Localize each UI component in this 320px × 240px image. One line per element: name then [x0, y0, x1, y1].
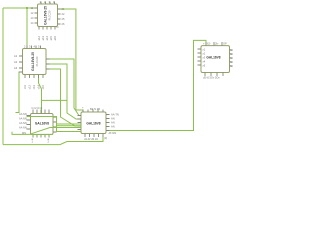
- U1 pin labels: [31, 0, 65, 40]
- svg-text:62-: 62-: [207, 41, 211, 45]
- wire left rail from U1 pin to bottom: [3, 8, 38, 145]
- svg-text:c13: c13: [32, 84, 36, 89]
- svg-text:GAL16V8: GAL16V8: [35, 122, 49, 126]
- svg-text:a16: a16: [53, 35, 57, 40]
- svg-text:AA-TN: AA-TN: [111, 113, 119, 117]
- svg-text:AN: AN: [111, 121, 115, 125]
- U4 pin labels: [82, 107, 119, 142]
- svg-text:c15: c15: [41, 84, 45, 89]
- svg-text:AN: AN: [111, 125, 115, 129]
- U2 pin labels: [14, 45, 45, 90]
- svg-text:t1 t2 t3 t4: t1 t2 t3 t4: [32, 106, 43, 110]
- svg-text:d5 t6 5Ox 5Ox: d5 t6 5Ox 5Ox: [203, 76, 220, 80]
- junction dot U2 top pin 3: [35, 49, 37, 51]
- svg-text:AN: AN: [111, 117, 115, 121]
- wire U2 left pin down to U3: [16, 72, 23, 113]
- svg-text:a14: a14: [45, 35, 49, 40]
- wire U2 bottom diagonal to U3: [39, 75, 42, 114]
- svg-text:4x: 4x: [230, 64, 233, 68]
- svg-text:AA NN: AA NN: [19, 112, 27, 116]
- wire U1 right loop down to U4 top pin: [58, 9, 84, 112]
- svg-text:GAL16V8-25: GAL16V8-25: [31, 52, 35, 71]
- svg-text:(2): (2): [104, 136, 107, 140]
- wire bottom rail: [3, 137, 103, 145]
- IC U1: [35, 2, 61, 30]
- svg-text:AA NN: AA NN: [19, 126, 27, 130]
- IC U5: [198, 42, 233, 76]
- wire U2 right pin3: [46, 69, 81, 126]
- svg-text:GAL16V8: GAL16V8: [86, 122, 100, 126]
- wire U1 to U2 vertical: [26, 8, 28, 49]
- svg-text:AA NN: AA NN: [19, 121, 27, 125]
- svg-text:d1 d2 d3 d4: d1 d2 d3 d4: [84, 137, 98, 141]
- svg-text:PLCC20: PLCC20: [35, 56, 39, 66]
- svg-text:GAL16V8-25: GAL16V8-25: [44, 6, 48, 25]
- wire diagonal through U3: [31, 128, 81, 134]
- svg-text:a13: a13: [41, 35, 45, 40]
- wire through U3 horizontal: [27, 117, 82, 132]
- IC U2: [19, 46, 50, 79]
- svg-text:4x: 4x: [230, 56, 233, 60]
- junction dot A: [26, 7, 28, 9]
- IC U4: [78, 110, 110, 138]
- svg-text:A2: A2: [14, 60, 18, 64]
- svg-text:PLCC20: PLCC20: [48, 10, 52, 20]
- wire U2 right pin1: [46, 59, 81, 116]
- svg-text:4x: 4x: [230, 48, 233, 52]
- svg-text:4x: 4x: [230, 60, 233, 64]
- svg-text:c11: c11: [23, 84, 27, 89]
- svg-text:c14: c14: [37, 84, 41, 89]
- junction dot U2 top pin 4: [40, 49, 42, 51]
- wire bottom segment left of U3: [12, 132, 53, 135]
- svg-text:BE N 2B: BE N 2B: [90, 107, 100, 111]
- svg-text:GAL16V8: GAL16V8: [206, 56, 220, 60]
- svg-text:A1: A1: [14, 54, 18, 58]
- svg-text:a15: a15: [49, 35, 53, 40]
- svg-text:2b-: 2b-: [215, 41, 219, 45]
- wire big right loop U4 to U5: [106, 40, 206, 130]
- svg-text:N: N: [57, 25, 59, 29]
- IC U3: [27, 110, 57, 138]
- svg-text:OP: OP: [223, 41, 227, 45]
- svg-text:AT-NN: AT-NN: [109, 131, 117, 135]
- svg-text:A3: A3: [14, 66, 18, 70]
- U5 pin labels: [203, 41, 234, 79]
- svg-text:4x: 4x: [230, 52, 233, 56]
- wire U2 right pin2: [42, 64, 82, 119]
- svg-text:a12: a12: [37, 35, 41, 40]
- U3 pin labels: [19, 106, 50, 144]
- svg-text:c12: c12: [28, 84, 32, 89]
- svg-text:AA NN: AA NN: [19, 117, 27, 121]
